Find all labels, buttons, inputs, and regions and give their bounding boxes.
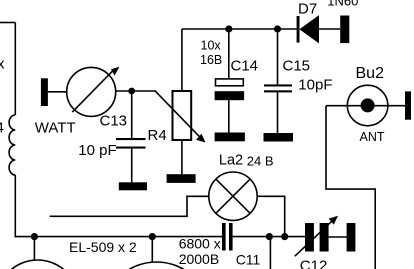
svg-text:1N60: 1N60 bbox=[327, 0, 358, 9]
meter WATT circle bbox=[67, 67, 116, 116]
node dot lamp lead bbox=[281, 233, 288, 240]
capacitor C14 lead top bbox=[228, 29, 230, 79]
svg-text:ANT: ANT bbox=[360, 130, 385, 144]
capacitor C12 arrow bbox=[295, 220, 334, 257]
svg-text:2000B: 2000B bbox=[179, 251, 219, 267]
svg-text:24 B: 24 B bbox=[247, 153, 274, 168]
ground bar C15 bbox=[264, 133, 294, 142]
lamp La2 cross bbox=[216, 179, 250, 213]
svg-text:x: x bbox=[0, 56, 5, 73]
capacitor C13 plates bbox=[116, 138, 146, 140]
wire top-left horizontal bbox=[0, 22, 15, 24]
svg-text:D7: D7 bbox=[298, 1, 317, 18]
capacitor C13 lead top bbox=[131, 91, 133, 139]
node dot C15 bbox=[274, 25, 281, 32]
svg-text:C12: C12 bbox=[300, 258, 328, 269]
svg-text:R4: R4 bbox=[148, 127, 167, 144]
diode D7 cathode bar bbox=[297, 16, 300, 43]
svg-text:La2: La2 bbox=[219, 152, 243, 168]
wire Bu2 down bbox=[326, 106, 375, 269]
capacitor C13 lead bottom bbox=[131, 149, 133, 183]
diode D7 triangle bbox=[299, 15, 319, 43]
wire lamp right lead bbox=[257, 196, 285, 236]
wire probe to meter bbox=[48, 91, 67, 93]
terminal bar Bu2 bbox=[405, 91, 411, 119]
node dot C14 bbox=[225, 25, 232, 32]
svg-text:C14: C14 bbox=[231, 58, 259, 75]
ground bar R4 bbox=[167, 174, 196, 183]
wire tube1 stem bbox=[33, 237, 35, 261]
svg-text:C13: C13 bbox=[100, 112, 128, 129]
terminal bar antenna feed bbox=[347, 223, 356, 252]
node dot tube1 bbox=[31, 233, 38, 240]
R4 wiper arrow bbox=[155, 90, 201, 137]
svg-text:EL-509 x 2: EL-509 x 2 bbox=[69, 239, 137, 255]
wire left vertical upper bbox=[14, 23, 16, 116]
connector Bu2 center pin bbox=[361, 98, 375, 112]
wire bottom bus right bbox=[233, 236, 305, 238]
wire top bus bbox=[182, 28, 297, 30]
wire meter to R4 wiper bbox=[116, 90, 155, 92]
ground bar C14 bbox=[215, 133, 245, 142]
node dot bus right bbox=[266, 233, 273, 240]
wire R4 top lead bbox=[181, 29, 183, 91]
svg-text:C15: C15 bbox=[283, 58, 311, 75]
node dot tube2 bbox=[149, 233, 156, 240]
svg-text:Bu2: Bu2 bbox=[356, 65, 385, 82]
wire bottom bus left bbox=[15, 236, 222, 238]
wire anode drop bbox=[269, 237, 271, 269]
svg-text:WATT: WATT bbox=[35, 119, 76, 136]
wire through Bu2 bbox=[326, 105, 405, 107]
inductor L4 bbox=[9, 115, 15, 175]
capacitor C12 plates bbox=[305, 223, 314, 252]
capacitor C15 lead top bbox=[277, 29, 279, 85]
capacitor C15 plates bbox=[264, 84, 292, 86]
wire left vertical lower bbox=[14, 175, 16, 237]
svg-text:C11: C11 bbox=[236, 251, 261, 267]
wire C12 to terminal bbox=[329, 236, 347, 238]
wire diode to terminal bbox=[319, 28, 340, 30]
lamp La2 circle bbox=[209, 172, 257, 220]
svg-text:16B: 16B bbox=[200, 53, 222, 67]
terminal bar (wattmeter probe) bbox=[41, 78, 48, 106]
svg-text:4: 4 bbox=[0, 120, 4, 137]
meter arrow bbox=[72, 70, 114, 113]
capacitor C14 plus plate (hollow) bbox=[216, 79, 244, 86]
capacitor C14 minus plate (solid) bbox=[215, 91, 245, 100]
tube EL-509 #1 envelope bbox=[0, 260, 79, 269]
node junction dot bbox=[128, 88, 135, 95]
svg-text:10pF: 10pF bbox=[298, 76, 332, 93]
connector Bu2 circle bbox=[347, 85, 388, 126]
svg-text:6800 x: 6800 x bbox=[179, 236, 221, 252]
svg-text:10x: 10x bbox=[201, 38, 222, 52]
capacitor C15 lead bottom bbox=[277, 92, 279, 133]
wire tube2 stem bbox=[151, 237, 153, 262]
capacitor C14 lead bottom bbox=[228, 100, 230, 132]
ground bar C13 bbox=[119, 182, 147, 190]
resistor R4 body bbox=[173, 91, 192, 140]
tube EL-509 #2 envelope bbox=[103, 262, 211, 269]
capacitor C11 plates bbox=[222, 223, 226, 251]
terminal bar D7 output bbox=[340, 16, 349, 44]
svg-text:10 pF: 10 pF bbox=[78, 142, 116, 159]
wire lamp left lead bbox=[50, 196, 209, 216]
wire R4 bottom lead bbox=[181, 140, 183, 174]
